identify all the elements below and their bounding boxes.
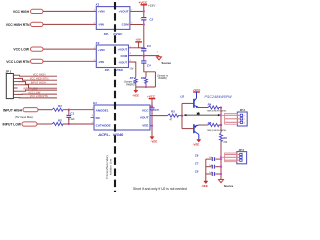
wire INPUT LOW from JP1: [18, 90, 57, 91]
svg-text:Source: Source: [224, 184, 234, 188]
svg-text:X1: X1: [95, 2, 100, 6]
node junction: [143, 10, 145, 12]
wire base rail: [181, 103, 183, 128]
svg-text:C1: C1: [70, 112, 74, 116]
node junction: [220, 114, 222, 116]
wire: [220, 124, 221, 126]
svg-text:JP 2: JP 2: [240, 108, 246, 112]
svg-text:R1: R1: [58, 104, 62, 108]
wire VCC HIGH RTN from JP1: [18, 78, 57, 80]
JP3 pin: [240, 153, 242, 155]
svg-text:TBR (DRIVE/GATE): TBR (DRIVE/GATE): [207, 129, 227, 132]
svg-text:VEE: VEE: [142, 124, 148, 128]
svg-text:+VIN: +VIN: [98, 10, 105, 14]
wire: [151, 110, 153, 136]
primary/secondary isolation line: [114, 2, 116, 192]
svg-text:INPUT LOW: INPUT LOW: [3, 123, 22, 127]
capacitor C5: [149, 107, 154, 109]
JP2 pin: [240, 118, 242, 120]
wire: [220, 107, 221, 109]
wire: [135, 85, 137, 88]
wire: [180, 115, 183, 117]
JP2 pin: [240, 121, 242, 123]
svg-text:6: 6: [157, 52, 158, 54]
svg-text:C8: C8: [195, 169, 199, 173]
svg-text:VCC LOW RTN: VCC LOW RTN: [30, 94, 48, 98]
svg-text:Source: Source: [162, 61, 172, 65]
U1 NC pin stub: [91, 116, 95, 118]
JP3 pin: [240, 156, 242, 158]
svg-text:R4&R6): R4&R6): [126, 85, 134, 87]
svg-text:R7: R7: [130, 76, 134, 80]
wire U1 VCC pin: [150, 105, 152, 107]
wire: [143, 21, 145, 48]
svg-text:R4&R6): R4&R6): [159, 78, 167, 80]
svg-text:CATHODE: CATHODE: [96, 124, 111, 128]
JP1 pin stub: [13, 93, 17, 95]
svg-text:(Jumper to: (Jumper to: [157, 74, 169, 77]
svg-text:KP-: KP-: [104, 32, 109, 36]
svg-text:-VEE: -VEE: [151, 140, 158, 144]
JP1 pin stub: [13, 74, 17, 76]
capacitor C2: [141, 17, 146, 19]
JP2 pin: [240, 114, 242, 116]
svg-text:2: 2: [244, 119, 245, 121]
svg-text:0.1uF: 0.1uF: [68, 118, 75, 121]
wire VCC LOW RTN from JP1: [18, 97, 57, 99]
wire: [143, 51, 145, 56]
svg-text:-VEE: -VEE: [193, 143, 200, 147]
wire: [37, 123, 52, 125]
node junction: [143, 54, 145, 56]
svg-text:C3: C3: [147, 44, 151, 48]
power -VEE: [135, 87, 137, 90]
capacitor C3: [141, 48, 146, 50]
wire rail to bundle: [221, 156, 225, 158]
svg-text:ANODE1: ANODE1: [96, 108, 109, 112]
transistor Q1 NPN: [182, 102, 193, 104]
JP1 pin stub: [13, 90, 17, 92]
wire: [43, 48, 96, 50]
svg-text:INPUT LOW: INPUT LOW: [23, 86, 38, 90]
wire from JP1 pin 4: [18, 85, 57, 88]
svg-text:C7: C7: [195, 162, 199, 166]
svg-text:1: 1: [244, 115, 245, 117]
wire X1 +VOUT: [130, 10, 144, 12]
wire VCC HIGH from JP1: [18, 75, 57, 76]
wire: [43, 60, 96, 62]
svg-text:R6: R6: [223, 136, 227, 140]
svg-text:INPUT HIGH: INPUT HIGH: [3, 108, 23, 112]
wire: [64, 109, 94, 111]
node junction base rail: [181, 114, 183, 116]
wire: [220, 143, 222, 180]
wire: [136, 86, 156, 88]
svg-text:COM: COM: [122, 23, 130, 27]
wire: [144, 63, 156, 71]
JP2 wire bundle: [225, 113, 238, 124]
svg-text:-VEE: -VEE: [132, 94, 139, 98]
svg-text:VCC LOW: VCC LOW: [13, 48, 29, 52]
JP1 pin stub: [13, 87, 17, 89]
wire cap left rail: [205, 159, 207, 181]
svg-text:VCC HIGH RTN: VCC HIGH RTN: [30, 76, 49, 80]
svg-text:+VCC: +VCC: [147, 94, 156, 98]
svg-text:-VOUT: -VOUT: [118, 60, 127, 64]
capacitor C4: [143, 56, 145, 61]
svg-text:+VOUT: +VOUT: [117, 48, 127, 52]
wire X2 +VOUT to +5V: [129, 42, 139, 48]
svg-text:10u: 10u: [209, 157, 212, 159]
power -VEE for Q2: [197, 140, 201, 143]
svg-text:(Jumper to: (Jumper to: [124, 81, 136, 84]
svg-text:VCC LOW RTN: VCC LOW RTN: [6, 60, 30, 64]
svg-text:-VEE: -VEE: [201, 184, 208, 188]
svg-text:VCC HIGH: VCC HIGH: [13, 10, 30, 14]
svg-text:Short if and only if U2 is not: Short if and only if U2 is not needed: [133, 187, 187, 191]
power -VEE bottom: [204, 181, 208, 184]
node junction: [68, 123, 70, 125]
svg-text:+VIN: +VIN: [98, 48, 105, 52]
svg-text:C4: C4: [147, 63, 151, 67]
wire X2 COM / Source: [129, 55, 160, 57]
transistor Q2 PNP: [182, 128, 193, 130]
svg-text:+VOUT: +VOUT: [119, 10, 129, 14]
svg-text:VCC HIGH RTN: VCC HIGH RTN: [6, 23, 30, 27]
JP1 pin stub: [13, 77, 17, 79]
wire emitter to R4: [199, 107, 208, 109]
svg-text:COM: COM: [120, 54, 127, 58]
svg-text:Isolation Line: Isolation Line: [109, 158, 113, 175]
resistor R6: [220, 133, 223, 143]
svg-text:PSC2484W5PW: PSC2484W5PW: [205, 95, 233, 99]
node junction: [143, 47, 145, 49]
svg-text:-VIN: -VIN: [98, 60, 104, 64]
wire U1 VOUT: [150, 115, 168, 117]
JP1 pin stub: [13, 84, 17, 86]
svg-text:R2: R2: [58, 119, 62, 123]
svg-text:-VIN: -VIN: [98, 23, 104, 27]
svg-text:(5V Input Max): (5V Input Max): [15, 115, 33, 119]
svg-text:+5V: +5V: [135, 38, 140, 42]
star marker: [196, 112, 200, 116]
svg-text:NC: NC: [96, 116, 101, 120]
capacitor C1: [68, 110, 70, 115]
wire rail to bundle: [221, 114, 225, 116]
wire jumper loop: [154, 72, 156, 87]
wire: [43, 10, 96, 12]
svg-text:3: 3: [244, 122, 245, 124]
wire U1 VEE pin: [150, 125, 152, 127]
svg-text:JP 1: JP 1: [6, 69, 12, 73]
svg-text:VCC: VCC: [142, 108, 149, 112]
svg-text:X2: X2: [95, 41, 100, 45]
wire: [43, 23, 96, 25]
svg-text:R5: R5: [208, 121, 212, 125]
JP1 pin stub: [13, 97, 17, 99]
svg-text:-5V: -5V: [130, 67, 134, 71]
svg-text:INPUT HIGH: INPUT HIGH: [31, 80, 46, 84]
svg-text:KP-: KP-: [105, 68, 110, 72]
wire emitter to R5: [199, 124, 208, 126]
svg-text:C6: C6: [195, 153, 199, 157]
node junction: [143, 23, 145, 25]
JP3 pin: [240, 159, 242, 161]
ground Source bottom: [219, 180, 224, 183]
jumper annotation arrow: [185, 114, 220, 116]
ground Source symbol: [158, 56, 160, 57]
svg-text:TBR (DRIVE/GATE): TBR (DRIVE/GATE): [207, 110, 227, 113]
node junction: [68, 109, 70, 111]
svg-text:R3: R3: [171, 110, 175, 114]
svg-text:VCC HIGH: VCC HIGH: [33, 72, 46, 76]
JP3 wire bundle: [225, 153, 237, 162]
svg-text:R8: R8: [141, 76, 145, 80]
svg-text:C2: C2: [149, 17, 153, 21]
power -VEE below C5: [150, 137, 154, 140]
wire: [38, 109, 52, 111]
wire: [64, 123, 94, 125]
wire INPUT HIGH from JP1: [18, 82, 57, 85]
svg-text:+15V: +15V: [148, 4, 156, 8]
wire +VCC rail: [143, 5, 145, 17]
wire VCC LOW from JP1: [18, 93, 57, 95]
wire output rail: [220, 108, 222, 133]
svg-text:U2: U2: [180, 95, 184, 99]
wire X2 -VOUT: [129, 62, 136, 77]
svg-text:ACPL-: ACPL-: [97, 132, 111, 137]
svg-text:VOUT: VOUT: [140, 116, 149, 120]
svg-text:C5: C5: [155, 108, 159, 112]
svg-text:VCC LOW: VCC LOW: [28, 90, 41, 94]
node junction: [220, 156, 222, 158]
wire: [151, 99, 153, 108]
JP1 pin stub: [13, 81, 17, 83]
wire X1 COM: [130, 24, 144, 26]
